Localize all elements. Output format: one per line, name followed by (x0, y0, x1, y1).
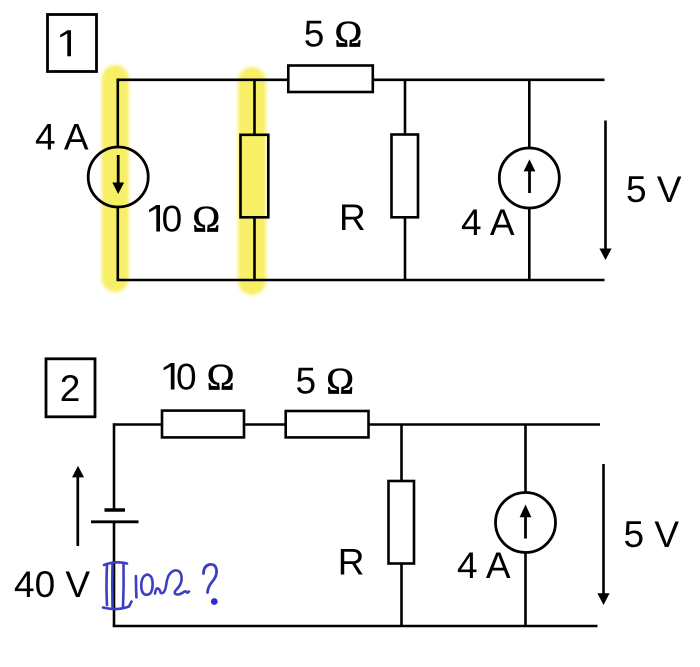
svg-text:0 Ω: 0 Ω (176, 357, 234, 399)
resistor 5 ohm (circuit 1, horizontal) (288, 66, 373, 93)
wire: circuit 2 current-source branch vertical (524, 425, 527, 627)
battery V1 40V (91, 510, 139, 522)
handwritten annotation (blue): sketched resistor box (103, 562, 132, 609)
wire: circuit 2 left vertical (upper, to battery) (113, 423, 116, 510)
svg-text:40 V: 40 V (14, 564, 90, 605)
label 10 ohm (circuit 2) (164, 363, 175, 390)
svg-text:4 A: 4 A (35, 117, 89, 158)
wire: circuit 1 second vertical branch (10 ohm) (253, 80, 256, 280)
highlighter stroke 1 (yellow, over left branch) (102, 65, 129, 292)
svg-text:5 Ω: 5 Ω (304, 14, 362, 56)
wire: circuit 1 bottom horizontal (117, 279, 605, 282)
handwritten annotation (blue): "10 ohm" script (136, 570, 189, 597)
svg-text:R: R (338, 542, 365, 583)
wire: circuit 1 left vertical branch (117, 79, 120, 281)
box label 2 (46, 359, 95, 417)
arrow: 40 V reference (up) (72, 466, 84, 546)
resistor 5 ohm (circuit 2, horizontal) (286, 411, 369, 437)
current source 4A (circuit 2, up arrow) (496, 493, 556, 553)
current source 4A (circuit 1, up arrow) (499, 148, 559, 208)
handwritten annotation (blue): question mark (204, 564, 217, 592)
svg-text:4 A: 4 A (461, 202, 515, 243)
svg-text:5 V: 5 V (624, 514, 680, 555)
handwritten annotation (blue): question-mark dot (211, 598, 218, 605)
svg-text:0 Ω: 0 Ω (162, 199, 220, 241)
svg-text:2: 2 (60, 368, 81, 409)
resistor 10 ohm (circuit 2, horizontal) (162, 411, 244, 438)
arrow: 5 V reference (circuit 1) (599, 121, 611, 261)
wire: circuit 2 bottom horizontal (113, 625, 598, 628)
resistor R (circuit 2, vertical) (389, 481, 415, 564)
wire: circuit 2 top horizontal (114, 423, 600, 426)
current source I1 4A (down arrow) (88, 147, 148, 207)
svg-text:4 A: 4 A (457, 545, 511, 586)
wire: circuit 1 R branch vertical (404, 80, 407, 280)
highlighter stroke 2 (yellow, over 10 ohm branch) (238, 67, 266, 295)
wire: circuit 2 R branch vertical (400, 425, 403, 627)
wire: circuit 1 top horizontal (118, 79, 605, 82)
resistor R (circuit 1, vertical) (392, 135, 419, 218)
wire: circuit 2 left vertical (lower, from battery) (113, 522, 116, 626)
box label 1 (48, 15, 97, 72)
resistor 10 ohm (circuit 1, vertical) (241, 135, 269, 218)
svg-text:5 Ω: 5 Ω (296, 361, 354, 403)
arrow: 5 V reference (circuit 2) (597, 464, 609, 605)
svg-text:5 V: 5 V (626, 169, 682, 210)
label 10 ohm (circuit 1) (149, 205, 160, 232)
wire: circuit 1 current-source branch vertical (528, 80, 531, 280)
svg-text:R: R (339, 197, 366, 238)
